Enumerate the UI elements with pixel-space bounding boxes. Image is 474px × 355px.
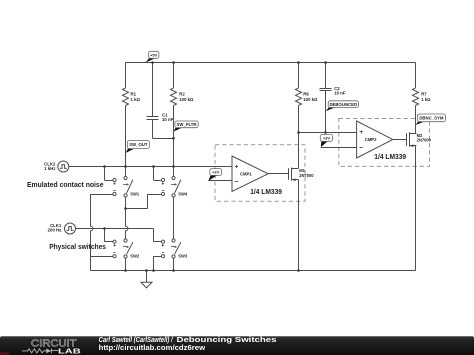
svg-text:LAB: LAB [58,349,81,355]
svg-text:2N7000: 2N7000 [417,137,432,142]
svg-text:Carl Sawtell (CarlSawtell) /: Carl Sawtell (CarlSawtell) / [99,337,174,344]
svg-text:100 kΩ: 100 kΩ [179,97,194,102]
svg-text:+5V: +5V [150,52,158,57]
svg-text:1/4 LM339: 1/4 LM339 [250,187,282,196]
svg-text:SW1: SW1 [130,191,140,196]
svg-text:1 kΩ: 1 kΩ [421,97,431,102]
svg-text:Emulated contact noise: Emulated contact noise [27,180,104,189]
svg-text:R6: R6 [303,92,309,97]
svg-text:Physical switches: Physical switches [49,242,106,251]
svg-text:R1: R1 [131,92,137,97]
svg-text:100 kΩ: 100 kΩ [303,97,318,102]
svg-text:http://circuitlab.com/cdz6rew: http://circuitlab.com/cdz6rew [99,345,206,352]
svg-text:10 nF: 10 nF [162,117,174,122]
svg-text:200 Hz: 200 Hz [48,228,62,233]
svg-text:R2: R2 [179,92,185,97]
svg-text:CMP1: CMP1 [240,171,252,176]
svg-text:DBNC_SYM: DBNC_SYM [419,115,444,120]
svg-text:R7: R7 [421,92,427,97]
svg-text:Debouncing Switches: Debouncing Switches [177,335,277,344]
svg-text:1 kHz: 1 kHz [44,166,55,171]
svg-text:SW4: SW4 [178,191,188,196]
svg-text:+3V: +3V [323,135,331,140]
svg-text:2N7000: 2N7000 [299,173,314,178]
svg-text:SW_OUT: SW_OUT [129,142,148,147]
svg-text:SW_FLTR: SW_FLTR [177,122,198,127]
svg-text:CMP2: CMP2 [365,137,377,142]
svg-text:1/4 LM339: 1/4 LM339 [374,152,406,161]
svg-text:10 nF: 10 nF [334,91,346,96]
svg-text:SW3: SW3 [178,254,188,259]
svg-text:1 kΩ: 1 kΩ [131,97,141,102]
svg-text:SW2: SW2 [130,254,140,259]
svg-text:DEBOUNCED: DEBOUNCED [329,102,357,107]
svg-text:+2V: +2V [212,170,220,175]
